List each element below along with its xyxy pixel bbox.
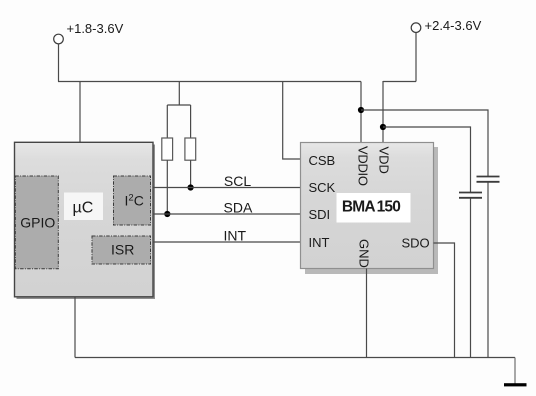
svg-text:VDD: VDD <box>377 147 392 174</box>
resistor R2 (pull-up to SCL) <box>185 138 196 160</box>
svg-text:GND: GND <box>357 239 372 268</box>
svg-text:+2.4-3.6V: +2.4-3.6V <box>425 18 482 33</box>
svg-text:INT: INT <box>309 235 330 250</box>
microcontroller U1 (uC) <box>15 142 156 299</box>
supply terminal +2.4-3.6V <box>411 18 481 33</box>
svg-text:ISR: ISR <box>111 242 134 258</box>
wire from +2.4V terminal down <box>415 33 417 82</box>
svg-text:VDDIO: VDDIO <box>355 146 370 186</box>
wire rail end drop to VDDIO pin <box>360 82 362 143</box>
junction dot VDDIO/decoupling <box>358 107 364 113</box>
capacitor C1 <box>477 177 500 182</box>
svg-text:SDI: SDI <box>309 207 331 222</box>
svg-text:SCL: SCL <box>224 173 251 189</box>
accelerometer U2 BMA150 <box>301 143 439 275</box>
svg-text:GPIO: GPIO <box>20 214 55 230</box>
svg-text:SCK: SCK <box>309 180 336 195</box>
wire VDD drop to BMA150 VDD pin <box>382 81 384 143</box>
svg-text:µC: µC <box>73 199 94 216</box>
wire from +1.8V terminal down to rail <box>58 44 60 82</box>
svg-text:INT: INT <box>224 227 247 243</box>
wire R2 bottom to SCL line <box>190 160 192 187</box>
wire stub from rail to resistor splitter <box>178 82 180 106</box>
wire uC bottom drop <box>74 297 76 358</box>
wire +2.4V horizontal to VDD column <box>383 81 416 83</box>
wire GND pin down <box>366 269 368 358</box>
BMA150 label <box>337 193 411 223</box>
wire C1 bottom to ground rail <box>487 183 489 358</box>
ground symbol <box>504 383 527 386</box>
svg-text:SDO: SDO <box>402 236 430 251</box>
svg-text:BMA150: BMA150 <box>342 198 400 215</box>
svg-text:CSB: CSB <box>309 153 336 168</box>
wire VDD decoupling horizontal to C2 <box>383 127 471 192</box>
wire bottom ground rail <box>75 357 515 359</box>
wire C2 bottom to ground rail <box>470 199 472 358</box>
wire splitter to R2 top <box>190 105 192 138</box>
wire resistor splitter horizontal <box>167 104 190 106</box>
junction dot R2/SCL <box>188 184 194 190</box>
wire INT <box>153 241 301 243</box>
wire SCL <box>153 187 301 189</box>
I2C block <box>114 176 151 225</box>
wire R1 bottom to SDA line <box>166 160 168 214</box>
wire SDO right then down <box>434 243 455 358</box>
supply terminal +1.8-3.6V <box>54 21 124 44</box>
capacitor C2 <box>459 193 482 198</box>
junction dot R1/SDA <box>164 211 170 217</box>
ISR block <box>92 236 151 264</box>
svg-text:+1.8-3.6V: +1.8-3.6V <box>67 21 124 36</box>
wire SDA <box>153 213 301 215</box>
wire VDDIO decoupling horizontal to C1 <box>361 110 488 176</box>
wire rail drop to uC VDD (top of uC) <box>79 82 81 143</box>
wire ground rail drop to earth <box>514 358 516 384</box>
GPIO block <box>15 176 58 269</box>
wire rail drop to CSB <box>283 82 301 160</box>
wire splitter to R1 top <box>166 105 168 138</box>
svg-text:SDA: SDA <box>224 199 253 215</box>
uC label <box>64 193 103 221</box>
resistor R1 (pull-up to SDA) <box>162 138 173 160</box>
svg-text:I2C: I2C <box>125 193 144 209</box>
wire +1.8V horizontal rail <box>58 81 361 83</box>
junction dot VDD/decoupling <box>380 124 386 130</box>
